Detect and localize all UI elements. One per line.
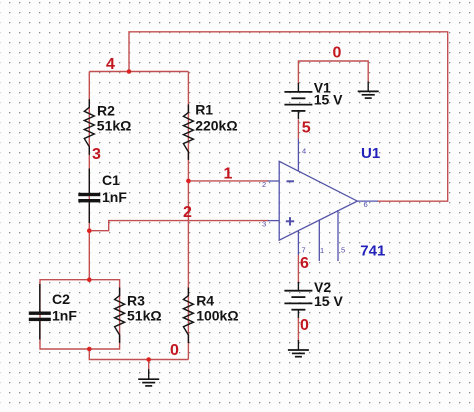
svg-text:R3: R3 [127,293,145,309]
wire bottom rail node 0 [89,349,188,360]
resistor R1 [183,104,193,159]
node junction at 1 [186,179,191,184]
resistor R3 [115,288,125,344]
svg-text:51kΩ: 51kΩ [127,308,162,324]
wire node 1 [188,180,268,182]
svg-text:5: 5 [341,246,345,255]
wire pin7 to V2 [297,255,299,283]
node junction at 4 [127,69,132,74]
node junction C2 bottom rail [87,347,92,352]
svg-text:U1: U1 [361,145,380,162]
wire node 4 rail [89,71,188,73]
svg-text:C1: C1 [102,172,120,188]
svg-text:0: 0 [170,342,179,359]
resistor R2 [84,99,94,155]
svg-text:15 V: 15 V [314,293,343,309]
op-amp U1 [268,139,378,261]
svg-text:R1: R1 [195,101,213,117]
ground bottom center [138,369,159,386]
capacitor C1 [78,169,100,224]
wire top feedback [129,32,448,201]
wire node 2 step [89,221,268,231]
wire bottom ground stub [148,360,150,371]
wire node 2 drop [88,231,90,280]
svg-text:7: 7 [302,246,306,255]
svg-text:220kΩ: 220kΩ [195,117,237,133]
wire C2 loop left [40,280,89,349]
svg-text:15 V: 15 V [314,92,343,108]
node junction ground bottom [146,357,151,362]
svg-text:2: 2 [183,204,192,221]
svg-text:100kΩ: 100kΩ [196,308,238,324]
svg-text:1: 1 [224,165,233,182]
svg-text:51kΩ: 51kΩ [97,118,132,134]
wire R3 branch [89,280,119,349]
svg-text:R2: R2 [97,103,115,119]
svg-text:R4: R4 [196,293,214,309]
ground right of V1 [358,81,379,98]
ground below V2 [288,340,309,357]
resistor R4 [183,288,193,344]
svg-text:4: 4 [302,146,306,155]
svg-text:741: 741 [360,243,385,260]
wire R1-R4 vertical [187,72,189,360]
svg-text:5: 5 [302,120,311,137]
svg-text:6: 6 [364,200,368,209]
svg-text:1nF: 1nF [52,308,77,324]
svg-text:0: 0 [300,317,309,334]
capacitor C2 [29,284,51,340]
wire left chain R2-C1 [88,72,90,231]
svg-text:0: 0 [333,45,342,62]
svg-text:4: 4 [106,56,115,73]
svg-text:2: 2 [262,180,266,189]
svg-text:1nF: 1nF [102,189,127,205]
svg-text:1: 1 [320,246,324,255]
battery V2 [284,282,312,318]
wire V1 to ground [298,61,368,84]
svg-text:3: 3 [262,220,266,229]
node junction C2 top rail [87,277,92,282]
wire V2 to ground [297,317,299,341]
wire V1 to opamp pin4 [297,119,299,139]
battery V1 [284,83,312,119]
node junction at C1 bottom [87,228,92,233]
svg-text:6: 6 [300,255,309,272]
svg-text:3: 3 [92,146,101,163]
svg-text:C2: C2 [52,291,70,307]
junction dots [87,69,191,362]
